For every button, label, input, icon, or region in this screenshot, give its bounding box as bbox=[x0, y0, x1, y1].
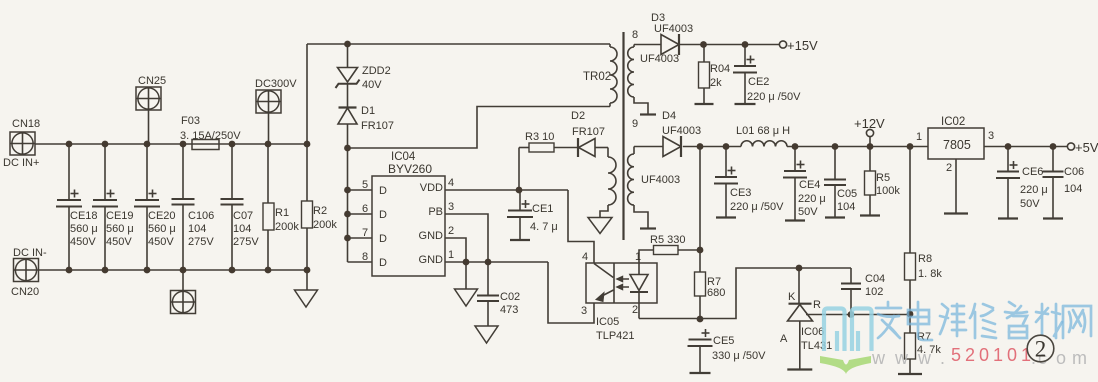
svg-text:D: D bbox=[379, 257, 387, 269]
svg-text:200k: 200k bbox=[313, 219, 337, 231]
junction dot TL431 K bbox=[796, 265, 803, 272]
svg-text:FR107: FR107 bbox=[572, 126, 605, 138]
resistor R3 10 bbox=[519, 131, 578, 152]
svg-text:2: 2 bbox=[632, 304, 638, 316]
ground under DC IN- rail end bbox=[295, 270, 318, 307]
svg-text:D: D bbox=[379, 209, 387, 221]
svg-text:1: 1 bbox=[916, 131, 922, 143]
svg-text:3: 3 bbox=[448, 201, 454, 213]
diode D4 UF4003 bbox=[634, 110, 701, 157]
svg-text:50V: 50V bbox=[798, 206, 818, 218]
terminal +5V bbox=[1067, 140, 1098, 155]
svg-text:CN25: CN25 bbox=[138, 75, 166, 87]
svg-text:D: D bbox=[379, 185, 387, 197]
wire snubber to primary bottom bbox=[348, 107, 611, 149]
capacitor CE4 220u 50V bbox=[783, 147, 826, 221]
wire R reference line bbox=[851, 314, 910, 316]
svg-text:C04: C04 bbox=[865, 273, 885, 285]
svg-text:D1: D1 bbox=[361, 105, 375, 117]
svg-text:1: 1 bbox=[448, 249, 454, 261]
diode D2 FR107 bbox=[571, 110, 608, 157]
svg-text:7: 7 bbox=[362, 227, 368, 239]
junction dots +12V rail bbox=[697, 143, 914, 150]
svg-text:8: 8 bbox=[632, 29, 638, 41]
svg-text:R5 330: R5 330 bbox=[650, 234, 685, 246]
transformer core bbox=[622, 32, 624, 240]
wire VDD to opto pin4 bbox=[568, 190, 594, 263]
svg-text:560 μ: 560 μ bbox=[106, 223, 134, 235]
wire drain bus to IC04 bbox=[347, 148, 349, 262]
wire +12V rail bbox=[700, 146, 928, 148]
IC04 pin 2 GND bbox=[419, 225, 466, 262]
wire +15V rail bbox=[680, 44, 780, 46]
IC05 pin 3 bbox=[581, 305, 587, 317]
svg-text:2: 2 bbox=[448, 225, 454, 237]
connector CN25 bbox=[136, 75, 166, 144]
svg-text:ZDD2: ZDD2 bbox=[362, 65, 391, 77]
svg-text:R2: R2 bbox=[313, 205, 327, 217]
svg-text:F03: F03 bbox=[181, 115, 200, 127]
resistor R5 100k bbox=[860, 147, 900, 216]
svg-text:0: 0 bbox=[979, 345, 989, 365]
IC04 pin 1 GND bbox=[419, 249, 548, 266]
wire D4 node down bbox=[699, 147, 701, 251]
svg-text:R5: R5 bbox=[876, 172, 890, 184]
svg-text:R1: R1 bbox=[275, 207, 289, 219]
svg-text:CN20: CN20 bbox=[11, 286, 39, 298]
capacitor C02 473 bbox=[477, 262, 520, 326]
IC04 pin 6 D bbox=[348, 203, 388, 221]
svg-text:DC IN+: DC IN+ bbox=[3, 157, 39, 169]
svg-text:VDD: VDD bbox=[420, 182, 443, 194]
transformer feedback winding bbox=[600, 148, 616, 218]
svg-text:3. 15A/250V: 3. 15A/250V bbox=[180, 130, 241, 142]
capacitor CE6 220u 50V bbox=[996, 147, 1048, 219]
svg-text:50V: 50V bbox=[1020, 198, 1040, 210]
IC02 pin 2 ground bbox=[944, 159, 968, 214]
svg-text:w: w bbox=[917, 348, 932, 368]
svg-text:CE5: CE5 bbox=[713, 335, 734, 347]
junction dots +15V rail bbox=[700, 41, 748, 48]
optocoupler IC05 TLP421 box bbox=[586, 263, 657, 342]
svg-text:C02: C02 bbox=[500, 291, 520, 303]
ground under IC04 pin2 bbox=[455, 262, 478, 306]
svg-text:TR02: TR02 bbox=[583, 71, 611, 83]
svg-text:TLP421: TLP421 bbox=[596, 330, 635, 342]
capacitor CE1 4.7u bbox=[507, 190, 558, 240]
IC04 pin 3 PB bbox=[428, 201, 488, 262]
IC05 phototransistor bbox=[594, 264, 614, 302]
capacitor C07 104 275V bbox=[221, 144, 260, 270]
svg-text:104: 104 bbox=[188, 223, 206, 235]
inductor L01 68uH bbox=[736, 125, 790, 147]
svg-text:R3 10: R3 10 bbox=[525, 131, 554, 143]
svg-text:A: A bbox=[780, 333, 788, 345]
IC04 pin 4 VDD bbox=[420, 177, 568, 194]
IC04 pin 5 D bbox=[348, 179, 388, 197]
svg-text:L01 68 μ H: L01 68 μ H bbox=[736, 125, 790, 137]
svg-text:UF4003: UF4003 bbox=[654, 23, 693, 35]
svg-text:104: 104 bbox=[1064, 183, 1082, 195]
svg-text:104: 104 bbox=[837, 201, 855, 213]
svg-text:UF4003: UF4003 bbox=[640, 53, 679, 65]
resistor R04 2k bbox=[695, 45, 731, 105]
svg-text:200k: 200k bbox=[275, 221, 299, 233]
transformer secondary winding 8-9 bbox=[628, 29, 679, 130]
junction dot divider bbox=[907, 311, 914, 318]
svg-text:+15V: +15V bbox=[787, 38, 818, 53]
IC05 pin 2 bbox=[632, 303, 639, 319]
capacitor C106 104 275V bbox=[172, 144, 215, 270]
diode D3 UF4003 bbox=[634, 12, 693, 55]
svg-text:473: 473 bbox=[500, 304, 518, 316]
svg-text:R04: R04 bbox=[710, 63, 730, 75]
svg-text:CE6: CE6 bbox=[1022, 166, 1043, 178]
svg-text:FR107: FR107 bbox=[361, 120, 394, 132]
connector bottom unlabeled bbox=[171, 270, 196, 314]
svg-text:560 μ: 560 μ bbox=[148, 223, 176, 235]
svg-text:680: 680 bbox=[707, 287, 725, 299]
svg-text:3: 3 bbox=[988, 130, 994, 142]
svg-text:C05: C05 bbox=[837, 188, 857, 200]
svg-text:IC06: IC06 bbox=[801, 326, 824, 338]
svg-text:102: 102 bbox=[865, 286, 883, 298]
svg-text:CN18: CN18 bbox=[12, 118, 40, 130]
svg-text:6: 6 bbox=[362, 203, 368, 215]
svg-text:UF4003: UF4003 bbox=[662, 125, 701, 137]
svg-text:C106: C106 bbox=[188, 210, 214, 222]
capacitor CE19 560u 450V bbox=[92, 144, 134, 270]
svg-text:5: 5 bbox=[362, 179, 368, 191]
svg-text:m: m bbox=[1072, 348, 1087, 368]
svg-text:100k: 100k bbox=[876, 185, 900, 197]
diode D1 FR107 bbox=[338, 84, 394, 148]
svg-text:450V: 450V bbox=[70, 236, 96, 248]
wire gnd net to opto pin3 bbox=[548, 262, 594, 323]
test point DC300V bbox=[255, 78, 297, 144]
wire top primary rail bbox=[307, 43, 610, 45]
svg-text:7805: 7805 bbox=[943, 138, 971, 152]
svg-text:GND: GND bbox=[419, 230, 444, 242]
svg-text:TL431: TL431 bbox=[801, 340, 832, 352]
svg-text:R: R bbox=[813, 299, 821, 311]
resistor R7 4.7k divider bbox=[898, 331, 941, 374]
svg-text:C06: C06 bbox=[1064, 166, 1084, 178]
svg-text:220 μ /50V: 220 μ /50V bbox=[730, 201, 784, 213]
svg-text:R8: R8 bbox=[918, 253, 932, 265]
IC02 pin 1 bbox=[916, 131, 922, 143]
svg-text:CE3: CE3 bbox=[730, 187, 751, 199]
resistor R2 200k bbox=[302, 44, 338, 270]
fuse F03 3.15A/250V bbox=[180, 115, 241, 150]
capacitor CE3 220u/50V bbox=[714, 147, 784, 218]
svg-text:275V: 275V bbox=[233, 236, 259, 248]
svg-text:104: 104 bbox=[233, 223, 251, 235]
wire R3 to VDD node bbox=[518, 148, 520, 191]
capacitor CE18 560u 450V bbox=[56, 144, 98, 270]
connector CN18 DC IN+ bbox=[3, 118, 40, 169]
svg-text:9: 9 bbox=[632, 118, 638, 130]
resistor R1 200k bbox=[263, 144, 299, 270]
svg-text:220 μ: 220 μ bbox=[798, 193, 826, 205]
svg-text:1: 1 bbox=[635, 251, 641, 263]
capacitor CE2 220u/50V bbox=[733, 45, 801, 105]
capacitor C06 104 bbox=[1043, 147, 1085, 219]
IC02 pin 3 output bbox=[984, 130, 1067, 147]
svg-text:5: 5 bbox=[951, 345, 961, 365]
resistor R7 680 bbox=[695, 250, 726, 319]
svg-text:IC02: IC02 bbox=[941, 116, 965, 128]
shunt regulator IC06 TL431 bbox=[780, 268, 851, 370]
zener ZDD2 40V bbox=[336, 44, 391, 91]
svg-text:1. 8k: 1. 8k bbox=[918, 268, 942, 280]
svg-text:4: 4 bbox=[582, 251, 588, 263]
svg-text:3: 3 bbox=[581, 305, 587, 317]
svg-text:450V: 450V bbox=[148, 236, 174, 248]
svg-text:0: 0 bbox=[1007, 345, 1017, 365]
ground under C02 bbox=[475, 326, 498, 343]
junction dot CE5 node bbox=[697, 316, 704, 323]
svg-text:CE4: CE4 bbox=[799, 179, 820, 191]
svg-text:220 μ: 220 μ bbox=[1020, 184, 1048, 196]
svg-text:4. 7 μ: 4. 7 μ bbox=[530, 221, 558, 233]
IC04 pin 8 D bbox=[348, 251, 388, 269]
svg-text:40V: 40V bbox=[362, 79, 382, 91]
svg-text:8: 8 bbox=[362, 251, 368, 263]
junction dots +5V rail bbox=[1005, 143, 1057, 150]
svg-text:DC IN-: DC IN- bbox=[13, 247, 47, 259]
svg-text:D4: D4 bbox=[662, 110, 676, 122]
wire DC IN+ rail bbox=[35, 143, 307, 145]
IC05 pin 4 bbox=[582, 251, 588, 263]
svg-text:DC300V: DC300V bbox=[255, 78, 297, 90]
regulator IC02 7805 bbox=[928, 116, 984, 159]
svg-text:.: . bbox=[940, 348, 945, 368]
ground under feedback winding bbox=[588, 218, 612, 234]
svg-text:1: 1 bbox=[993, 345, 1003, 365]
svg-text:+12V: +12V bbox=[854, 116, 885, 131]
svg-text:220 μ /50V: 220 μ /50V bbox=[747, 91, 801, 103]
svg-text:o: o bbox=[1056, 348, 1066, 368]
capacitor CE5 330u/50V bbox=[688, 329, 767, 373]
junction dots reference bbox=[848, 311, 855, 318]
svg-text:2: 2 bbox=[946, 162, 952, 174]
junction dot R5/R7 bbox=[697, 247, 704, 254]
svg-text:K: K bbox=[788, 291, 796, 303]
svg-text:330 μ /50V: 330 μ /50V bbox=[712, 350, 766, 362]
svg-text:CE20: CE20 bbox=[148, 210, 176, 222]
svg-text:C07: C07 bbox=[233, 210, 253, 222]
svg-text:D: D bbox=[379, 233, 387, 245]
transformer TR02 primary winding bbox=[583, 44, 617, 107]
op-amp U1 switching IC04 BYV260 box bbox=[372, 151, 445, 276]
svg-text:CE19: CE19 bbox=[106, 210, 134, 222]
junction dots primary bus bbox=[344, 41, 351, 242]
IC05 pin 1 bbox=[635, 251, 641, 263]
IC05 led bbox=[630, 263, 648, 303]
IC04 pin 7 D bbox=[348, 227, 388, 245]
svg-text:BYV260: BYV260 bbox=[388, 162, 432, 176]
svg-text:PB: PB bbox=[428, 206, 443, 218]
svg-text:2k: 2k bbox=[710, 77, 722, 89]
svg-text:UF4003: UF4003 bbox=[641, 174, 680, 186]
svg-text:w: w bbox=[894, 348, 909, 368]
svg-text:IC05: IC05 bbox=[596, 316, 619, 328]
capacitor C05 104 bbox=[824, 147, 857, 218]
svg-text:560 μ: 560 μ bbox=[70, 223, 98, 235]
resistor R8 1.8k divider bbox=[905, 147, 943, 334]
svg-text:+5V: +5V bbox=[1075, 140, 1098, 155]
svg-text:GND: GND bbox=[419, 254, 444, 266]
svg-text:2: 2 bbox=[1035, 337, 1047, 362]
wire CE5 node to TL431 K bbox=[700, 268, 851, 319]
resistor R5 330 bbox=[639, 234, 700, 263]
connector CN20 DC IN- bbox=[11, 247, 47, 298]
svg-text:D2: D2 bbox=[571, 110, 585, 122]
svg-text:4: 4 bbox=[448, 177, 454, 189]
terminal +15V bbox=[779, 38, 818, 53]
junction dots IC04 gnd bbox=[463, 259, 492, 266]
svg-text:w: w bbox=[871, 348, 886, 368]
IC05 emission arrows bbox=[617, 277, 629, 290]
junction dots DC rails bbox=[66, 141, 311, 274]
svg-text:CE1: CE1 bbox=[532, 203, 553, 215]
svg-text:2: 2 bbox=[965, 345, 975, 365]
transformer secondary winding 2 bbox=[628, 147, 681, 229]
wire opto emitter rail bbox=[639, 318, 700, 320]
svg-text:275V: 275V bbox=[188, 236, 214, 248]
watermark bbox=[820, 302, 1091, 374]
capacitor C04 102 bbox=[841, 268, 885, 315]
capacitor CE20 560u 450V bbox=[134, 144, 176, 270]
svg-text:450V: 450V bbox=[106, 236, 132, 248]
junction dot VDD node bbox=[516, 187, 523, 194]
svg-text:CE18: CE18 bbox=[70, 210, 98, 222]
svg-text:CE2: CE2 bbox=[748, 76, 769, 88]
wire DC IN- rail bbox=[39, 269, 308, 271]
terminal +12V bbox=[854, 116, 885, 147]
